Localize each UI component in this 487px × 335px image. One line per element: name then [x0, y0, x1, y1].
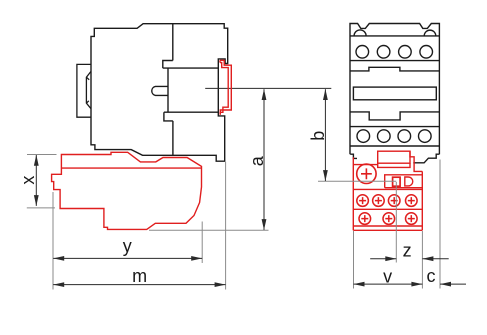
svg-text:x: x	[18, 176, 38, 185]
accessory interior line	[61, 167, 201, 169]
side view centerline to dimension a	[205, 87, 268, 89]
front terminal circles row 1	[356, 46, 433, 59]
small square latch	[393, 177, 401, 186]
ext b bottom	[318, 180, 396, 182]
svg-text:y: y	[123, 236, 132, 256]
contactor front view outline	[350, 24, 439, 163]
label window	[353, 87, 436, 100]
ext z/v right	[421, 231, 423, 289]
red accessory side-view mounting channel	[220, 60, 231, 114]
upper front vertical	[172, 24, 174, 61]
dimension x	[34, 155, 39, 206]
connector block right step	[410, 151, 422, 171]
accessory connector block	[378, 151, 410, 163]
ext x top	[27, 154, 57, 156]
ext m right	[225, 162, 227, 290]
screw row 2	[359, 213, 417, 225]
accessory bottom edge	[353, 229, 422, 231]
divider line 3	[353, 225, 422, 227]
left mounting dome	[354, 30, 366, 36]
svg-text:z: z	[403, 240, 412, 260]
divider line 2	[353, 208, 422, 210]
front terminal circles row 2	[357, 130, 431, 143]
svg-text:v: v	[383, 266, 392, 286]
middle front vertical	[167, 68, 169, 112]
front band line 3	[350, 126, 439, 128]
ext a bottom	[149, 229, 269, 231]
dimension a	[262, 89, 267, 230]
red accessory front view	[353, 151, 422, 230]
front band line 4	[350, 145, 439, 147]
accessory left edge	[352, 157, 354, 230]
ext x bottom	[27, 207, 55, 209]
coil pin with rounded cap	[152, 86, 168, 95]
svg-text:m: m	[132, 266, 147, 286]
ext c right	[439, 160, 441, 289]
dimension b	[323, 89, 328, 181]
accessory right edge	[421, 171, 423, 230]
svg-text:b: b	[308, 131, 328, 141]
front lower step line	[350, 112, 439, 120]
dimension c	[440, 282, 466, 287]
lower front vertical	[172, 121, 174, 155]
svg-text:c: c	[427, 266, 436, 286]
side view front-face verticals and tabs	[152, 24, 219, 156]
D-shaped hole	[405, 177, 413, 186]
dimension m	[53, 282, 225, 287]
contactor side view outline	[91, 24, 228, 162]
ext z center	[395, 182, 397, 263]
screw row 1	[357, 195, 417, 207]
recess top line	[163, 67, 219, 69]
dimension y	[53, 256, 202, 261]
front bottom-left step	[350, 154, 357, 158]
front outer edges and top notches	[350, 24, 439, 155]
front band line 1	[350, 35, 439, 37]
red accessory side-view body	[52, 152, 202, 229]
ext v left	[353, 231, 355, 289]
selector window box	[385, 175, 423, 188]
accessory top edge	[353, 164, 377, 166]
front bottom-right step	[413, 154, 439, 163]
recess bottom line	[164, 111, 219, 113]
svg-text:a: a	[247, 155, 267, 166]
extension lines	[27, 155, 440, 290]
dimension z	[370, 256, 449, 261]
dimension a/b top reference line	[269, 87, 332, 89]
ext y right	[201, 222, 203, 264]
ext y/m left	[52, 192, 54, 290]
tab T1	[163, 61, 173, 69]
side view DIN-rail spring clip	[77, 64, 91, 117]
dimension v	[354, 282, 423, 287]
connector block lip	[378, 163, 410, 167]
front band line 2	[350, 60, 439, 62]
tab T2	[164, 112, 173, 121]
divider line 1	[353, 188, 422, 190]
big screw head	[357, 164, 376, 183]
front upper step line	[350, 67, 439, 71]
right mounting dome	[424, 30, 436, 36]
